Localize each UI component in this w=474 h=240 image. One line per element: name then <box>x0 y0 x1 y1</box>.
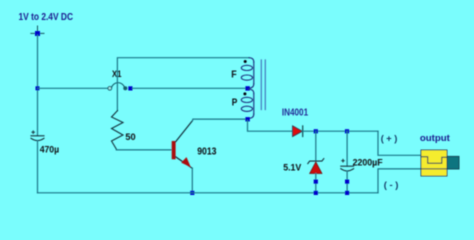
wire P bottom to diode <box>248 121 293 132</box>
diode D1 IN4001 <box>293 126 303 137</box>
zener D2 5.1V <box>315 131 317 161</box>
node cap bottom <box>345 180 349 184</box>
svg-text:X1: X1 <box>112 69 122 79</box>
node zener rail <box>314 191 318 195</box>
emitter arrow <box>181 157 191 167</box>
switch X1 <box>108 83 127 90</box>
wire minus lead to connector <box>378 169 447 193</box>
transformer core <box>261 60 265 110</box>
node battery terminal cross <box>31 26 44 33</box>
wire collector to P winding bottom <box>192 119 247 121</box>
wire battery junction to switch <box>38 87 109 89</box>
svg-text:1V to 2.4V DC: 1V to 2.4V DC <box>19 12 74 23</box>
capacitor C1 470u <box>31 131 44 141</box>
output connector plug <box>447 156 459 169</box>
node zener top <box>314 129 318 133</box>
svg-text:2200µF: 2200µF <box>353 157 383 168</box>
phase dot P <box>243 92 246 95</box>
svg-text:470µ: 470µ <box>40 144 59 155</box>
node battery junction <box>36 86 40 90</box>
node P bottom junction <box>245 117 249 121</box>
svg-text:output: output <box>420 133 451 144</box>
svg-text:( - ): ( - ) <box>384 180 399 190</box>
svg-text:50: 50 <box>125 132 135 142</box>
wire resistor to base <box>116 149 171 151</box>
transistor Q1 9013 <box>172 141 176 159</box>
node cap rail <box>345 191 349 195</box>
wire battery down to capacitor C1 <box>37 35 39 136</box>
phase dot F <box>244 60 247 63</box>
svg-text:( + ): ( + ) <box>381 134 398 144</box>
wire emitter to ground rail <box>191 168 193 193</box>
svg-text:P: P <box>232 97 238 108</box>
ground rail (bottom wire) <box>38 192 379 194</box>
wire plus lead to connector <box>378 131 421 155</box>
node emitter-rail junction <box>190 191 194 195</box>
wire switch to transformer junction <box>133 87 248 89</box>
wire feedback top: vertical + horizontal to F winding <box>117 58 249 111</box>
node switch output <box>128 86 132 90</box>
wire minus lead across connector body <box>421 168 447 170</box>
output connector body <box>421 150 447 176</box>
svg-text:9013: 9013 <box>197 146 217 157</box>
svg-text:F: F <box>231 70 236 81</box>
plus rail: diode to output corner <box>302 130 378 132</box>
node zener bottom <box>314 180 318 184</box>
winding P <box>241 89 254 118</box>
node F/P junction <box>245 86 249 90</box>
winding F <box>241 58 254 88</box>
node cap top <box>345 129 349 133</box>
svg-text:5.1V: 5.1V <box>283 162 302 173</box>
resistor R1 50 ohm <box>112 111 124 150</box>
wire capacitor to ground rail <box>37 141 39 193</box>
connector inner contact <box>421 157 447 164</box>
svg-text:IN4001: IN4001 <box>282 108 309 119</box>
capacitor C2 2200uF <box>346 131 348 166</box>
